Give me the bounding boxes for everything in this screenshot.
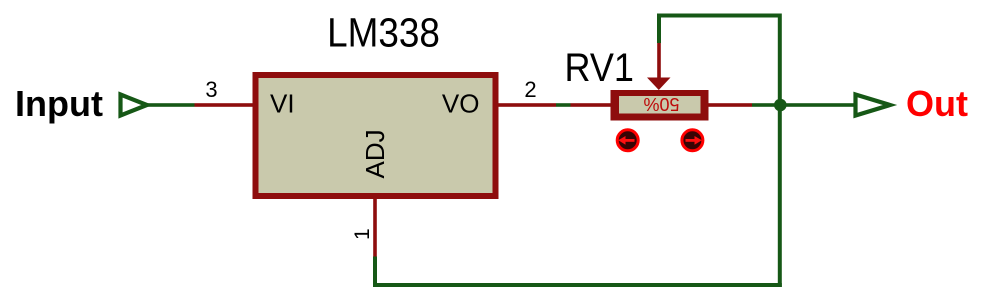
svg-text:RV1: RV1 [565,46,634,90]
RV1 increment button [682,130,703,151]
wire wiper to feedback top [659,16,780,44]
pin 2 of U1 [499,103,557,107]
feedback wire right vertical upper [778,14,782,106]
svg-text:ADJ: ADJ [360,129,390,178]
svg-text:1: 1 [351,228,374,240]
wire input terminal to pin 3 [147,103,195,107]
svg-text:Input: Input [15,83,103,124]
terminal Out [856,95,891,116]
pin 1 of U1 (ADJ) [373,199,377,257]
pin 1 of RV1 (left) [571,103,611,107]
junction dot [774,99,787,112]
voltage regulator U1 body [253,72,499,199]
svg-text:LM338: LM338 [327,11,440,56]
svg-text:3: 3 [205,77,217,102]
feedback wire right vertical lower [778,105,782,287]
pin 3 of RV1 (right) [709,103,753,107]
RV1 decrement button [617,130,638,151]
svg-text:2: 2 [524,77,536,102]
svg-text:VO: VO [442,89,480,119]
svg-text:Out: Out [906,83,968,124]
wire junction to Out terminal [780,103,854,107]
wire pin2 to RV1 [556,103,571,107]
wiper arm pin of RV1 [647,43,671,90]
svg-text:50%: 50% [643,94,679,114]
wire RV1 to junction [752,103,781,107]
potentiometer RV1 body [611,90,709,121]
terminal Input [121,95,148,116]
svg-text:VI: VI [270,89,295,119]
wire ADJ to feedback bottom [373,257,377,286]
feedback wire bottom [373,283,782,287]
pin 3 of U1 [195,103,254,107]
